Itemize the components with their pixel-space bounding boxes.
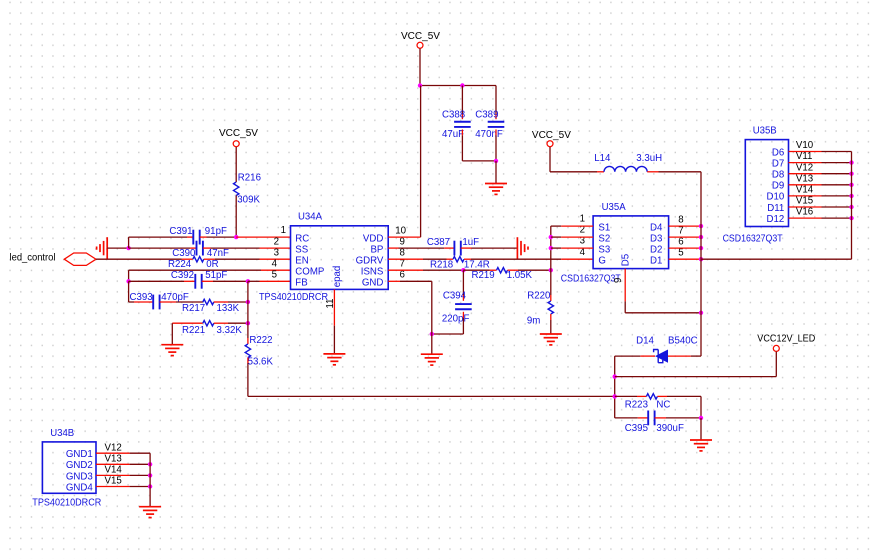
junction FB-left [126, 279, 130, 283]
wire C392 to FB junction [213, 280, 248, 282]
capacitor C392 [171, 270, 228, 289]
ground (epad) [323, 354, 345, 365]
svg-text:C393: C393 [130, 292, 153, 303]
wire GND pin to ground [400, 281, 432, 354]
resistor R219 [472, 268, 533, 282]
wire R222 down [247, 358, 249, 397]
svg-text:6: 6 [678, 236, 683, 247]
svg-text:GND3: GND3 [66, 471, 93, 482]
wire R223 right [667, 396, 701, 418]
svg-text:R221: R221 [182, 325, 205, 336]
wire S3 stub [551, 247, 593, 249]
pin 2 stub SS [260, 247, 291, 249]
svg-text:1: 1 [580, 214, 585, 225]
wire C391 to junction [207, 236, 237, 238]
capacitor C388 [442, 109, 471, 140]
junction R217/rail [246, 300, 250, 304]
svg-text:D5: D5 [621, 254, 632, 266]
op-amp U34B box [42, 442, 96, 493]
svg-text:L14: L14 [594, 153, 611, 164]
wire R221 to rail [228, 322, 248, 324]
svg-text:10: 10 [395, 226, 406, 237]
wire up to RC row [128, 237, 130, 248]
pin stubs D4-D1 [669, 225, 701, 227]
transistor U35B box [745, 140, 788, 227]
resistor R224 [168, 257, 219, 271]
wire drain rail [700, 172, 702, 356]
svg-text:C392: C392 [171, 270, 194, 281]
svg-text:V12: V12 [796, 162, 813, 173]
wire diode anode side [615, 355, 655, 357]
svg-text:C395: C395 [625, 423, 648, 434]
wire R219 to S-rail [518, 269, 551, 271]
svg-text:VCC12V_LED: VCC12V_LED [757, 333, 815, 344]
svg-text:led_control: led_control [10, 253, 56, 264]
U34B pin stubs [96, 452, 130, 454]
capacitor C393 [130, 292, 189, 310]
svg-text:GDRV: GDRV [356, 255, 384, 266]
svg-text:3: 3 [274, 248, 279, 259]
svg-text:D11: D11 [767, 203, 784, 214]
op-amp U34A box [291, 226, 389, 290]
wire C388 bottom lead [461, 130, 463, 161]
junction S3 [549, 246, 553, 250]
wire RC row left [129, 236, 187, 238]
wire R216 to RC row [235, 196, 237, 238]
wire VDD to VCC rail [420, 86, 422, 238]
svg-text:D14: D14 [636, 336, 654, 347]
svg-text:TPS40210DRCR: TPS40210DRCR [259, 292, 328, 303]
svg-text:470pF: 470pF [161, 292, 189, 303]
resistor R220 [527, 291, 554, 327]
wire V rail [851, 152, 853, 260]
wire R221 row [172, 322, 203, 324]
capacitor C395 [625, 411, 684, 434]
svg-text:R222: R222 [249, 335, 272, 346]
svg-text:3.3uH: 3.3uH [636, 153, 662, 164]
wire R220 to ground [550, 320, 552, 334]
svg-text:91pF: 91pF [205, 226, 227, 237]
svg-text:S1: S1 [598, 223, 610, 234]
wire C390 to SS pin [211, 247, 260, 249]
svg-text:R219: R219 [472, 270, 495, 281]
junctions drain rail [699, 224, 703, 228]
svg-text:47nF: 47nF [207, 248, 229, 259]
svg-text:D10: D10 [767, 192, 785, 203]
wire VCC12V_LED [615, 352, 777, 377]
junctions U34B rail [148, 462, 152, 466]
junction FB-right [246, 279, 250, 283]
pin 1 stub RC [236, 236, 290, 238]
svg-text:1: 1 [281, 225, 286, 236]
capacitor C391 [169, 226, 227, 244]
svg-text:V10: V10 [796, 140, 814, 151]
svg-text:GND2: GND2 [66, 460, 93, 471]
wire output rail [614, 356, 616, 418]
svg-text:C388: C388 [442, 109, 465, 120]
svg-text:309K: 309K [237, 194, 260, 205]
wire VCC_5V stem down [419, 49, 421, 86]
svg-text:epad: epad [332, 266, 343, 288]
inductor L14 [594, 153, 662, 172]
junction C395/ground [699, 416, 703, 420]
ground (R220) [540, 334, 562, 345]
wire C394 bottom lead [432, 312, 464, 334]
pin D5 stub [625, 269, 701, 313]
wire C393 row corner [129, 301, 134, 303]
wire to R219 [463, 269, 496, 271]
power symbol VCC_5V (L14) [532, 130, 572, 147]
svg-text:9: 9 [400, 237, 405, 248]
svg-text:VCC_5V: VCC_5V [401, 31, 441, 42]
svg-text:R224: R224 [168, 259, 192, 270]
svg-text:V16: V16 [796, 207, 813, 218]
ground (U34B) [139, 507, 161, 518]
resistor R223 [625, 394, 671, 411]
svg-text:17.4R: 17.4R [464, 260, 490, 271]
wire S-rail [550, 226, 552, 295]
svg-text:CSD16327Q3T: CSD16327Q3T [723, 233, 783, 244]
svg-text:D12: D12 [767, 214, 785, 225]
svg-text:D6: D6 [772, 147, 784, 158]
wire feedback bottom rail [248, 395, 615, 397]
pin 8 stub GDRV [388, 258, 423, 260]
junction at C388 column [460, 83, 464, 87]
svg-text:47uF: 47uF [442, 129, 464, 140]
junction R223 row [613, 394, 617, 398]
power symbol VCC_5V (top) [401, 31, 441, 48]
svg-text:C391: C391 [169, 226, 192, 237]
svg-text:VCC_5V: VCC_5V [532, 130, 572, 141]
junction S2 [549, 235, 553, 239]
wire C389 top lead [495, 86, 497, 120]
pin stub G (U35A pin 4) [561, 258, 593, 260]
svg-text:R216: R216 [238, 173, 261, 184]
junction C394/GND rail [430, 332, 434, 336]
wire to output ground [700, 418, 702, 440]
svg-text:R223: R223 [625, 399, 648, 410]
svg-text:NC: NC [656, 399, 670, 410]
svg-text:D8: D8 [772, 170, 784, 181]
pin 7 stub ISNS [388, 269, 423, 271]
svg-text:GND1: GND1 [66, 449, 93, 460]
svg-text:G: G [598, 256, 606, 267]
capacitor C387 [427, 237, 479, 255]
svg-text:V14: V14 [796, 185, 814, 196]
svg-text:FB: FB [295, 278, 307, 289]
svg-text:RC: RC [295, 233, 309, 244]
wire C395 right [655, 417, 701, 419]
capacitor C394 [442, 290, 472, 324]
wire R224 to EN pin [215, 258, 260, 260]
svg-text:V14: V14 [105, 465, 123, 476]
wire led_control [96, 258, 182, 260]
svg-text:S3: S3 [598, 245, 610, 256]
wire to ground [495, 161, 497, 184]
svg-text:U34A: U34A [298, 212, 323, 223]
wire C393 to R217 [176, 301, 203, 303]
power symbol VCC12V_LED [757, 333, 815, 351]
svg-text:C394: C394 [443, 290, 467, 301]
svg-text:9m: 9m [527, 316, 540, 327]
wire gnd stem [107, 247, 128, 249]
svg-text:V11: V11 [796, 151, 813, 162]
wire C394 top lead [462, 270, 464, 301]
resistor R218 [430, 257, 490, 271]
svg-text:7: 7 [400, 259, 405, 270]
svg-text:U35B: U35B [753, 126, 777, 137]
wire C388 top lead [461, 86, 463, 120]
transistor U35A box [593, 216, 669, 269]
ground (rotated, led_control area) [97, 237, 108, 259]
wire left rail down [128, 281, 130, 302]
wire ISNS to junction [423, 269, 463, 271]
resistor R222 [245, 335, 273, 368]
pin 3 stub EN [260, 258, 291, 260]
wire S2 stub [551, 236, 593, 238]
svg-text:8: 8 [400, 248, 405, 259]
power symbol VCC_5V (R216) [219, 128, 259, 147]
wire top rail y85 [420, 85, 496, 87]
svg-text:V13: V13 [796, 173, 813, 184]
svg-text:D4: D4 [650, 223, 663, 234]
wire BP to C387 [399, 247, 445, 249]
svg-text:5: 5 [678, 247, 683, 258]
svg-text:B540C: B540C [668, 336, 698, 347]
ground (rotated, C387) [517, 237, 528, 259]
pin 11 epad stub [333, 289, 335, 354]
svg-text:V15: V15 [105, 476, 122, 487]
wire R217 to rail [228, 301, 248, 303]
wire C389 bottom lead [495, 130, 497, 161]
pin 4 stub COMP [261, 269, 291, 271]
svg-text:0R: 0R [206, 259, 218, 270]
wire drain to U35B rail [701, 258, 852, 260]
pin 5 stub FB [260, 280, 291, 282]
wire R223 left lead [615, 395, 647, 397]
svg-text:R218: R218 [430, 260, 453, 271]
junction R216/RC [234, 235, 238, 239]
ground (C388/C389) [485, 184, 507, 195]
svg-text:D1: D1 [650, 256, 662, 267]
wire bottom rail y161 [462, 160, 496, 162]
svg-text:6: 6 [400, 270, 405, 281]
svg-text:TPS40210DRCR: TPS40210DRCR [32, 497, 101, 508]
port led_control [10, 253, 97, 266]
ground (R221) [161, 345, 183, 356]
svg-text:1uF: 1uF [462, 237, 479, 248]
junction D5/drain rail [699, 311, 703, 315]
ground (C395) [690, 440, 712, 451]
junction R221/rail [246, 321, 250, 325]
wire FB rail down [247, 281, 249, 344]
svg-text:R220: R220 [527, 291, 551, 302]
wire SS row left [129, 247, 190, 249]
wire FB row left [129, 280, 184, 282]
svg-text:53.6K: 53.6K [248, 357, 274, 368]
svg-text:220pF: 220pF [442, 313, 470, 324]
svg-text:BP: BP [370, 244, 383, 255]
wire C387 to ground [472, 247, 518, 249]
wire VCC to R216 [235, 147, 237, 182]
capacitor C389 [475, 109, 504, 140]
wire S1 corner [551, 225, 593, 227]
svg-text:2: 2 [274, 237, 279, 248]
svg-text:S2: S2 [598, 234, 610, 245]
svg-text:EN: EN [295, 255, 308, 266]
capacitor C390 [172, 241, 229, 259]
wire GDRV to R218 [423, 258, 447, 260]
svg-text:COMP: COMP [295, 266, 324, 277]
svg-text:V12: V12 [105, 442, 122, 453]
svg-text:390uF: 390uF [656, 423, 684, 434]
pin 9 stub BP [388, 247, 398, 249]
svg-text:V15: V15 [796, 196, 813, 207]
svg-text:5: 5 [272, 270, 277, 281]
svg-text:U34B: U34B [50, 428, 74, 439]
diode D14 [636, 336, 698, 363]
resistor R216 [234, 173, 261, 206]
resistor R217 [182, 299, 240, 314]
junctions V rail [849, 160, 853, 164]
wire R218 to U35A gate [471, 258, 561, 260]
junction R219/S-rail [549, 268, 553, 272]
wire VCC to L14 [550, 147, 604, 172]
ground (U34A GND/C394) [421, 354, 443, 365]
pin 6 stub GND [388, 280, 400, 282]
wire C395 left lead [615, 417, 649, 419]
svg-text:9: 9 [613, 278, 624, 283]
wire U34B rail [149, 453, 151, 507]
svg-text:VDD: VDD [363, 233, 383, 244]
svg-text:C390: C390 [172, 248, 196, 259]
wire L14 to drain rail [647, 171, 701, 173]
svg-text:VCC_5V: VCC_5V [219, 128, 259, 139]
svg-text:U35A: U35A [602, 202, 627, 213]
U35B pin stubs [789, 151, 822, 153]
svg-text:D3: D3 [650, 234, 662, 245]
resistor R221 [182, 321, 242, 336]
wire R221 to ground [171, 323, 173, 345]
svg-text:V13: V13 [105, 453, 122, 464]
svg-text:3.32K: 3.32K [217, 325, 243, 336]
wire drain to diode [668, 355, 701, 357]
svg-text:ISNS: ISNS [361, 266, 384, 277]
svg-text:51pF: 51pF [205, 270, 227, 281]
svg-text:C389: C389 [475, 109, 498, 120]
svg-text:133K: 133K [217, 303, 240, 314]
junction VCC12V row [613, 374, 617, 378]
svg-text:GND4: GND4 [66, 482, 94, 493]
svg-text:D2: D2 [650, 245, 662, 256]
svg-text:SS: SS [295, 244, 308, 255]
junction at C389 bottom [494, 159, 498, 163]
svg-text:7: 7 [678, 225, 683, 236]
svg-text:GND: GND [362, 278, 384, 289]
junction C394 top [461, 268, 465, 272]
svg-text:CSD16327Q3T: CSD16327Q3T [561, 273, 621, 284]
wire COMP row [129, 270, 261, 281]
svg-text:8: 8 [678, 214, 683, 225]
pin 10 stub VDD [388, 236, 420, 238]
svg-text:1.05K: 1.05K [507, 270, 533, 281]
svg-text:R217: R217 [182, 303, 205, 314]
junction at VCC column [418, 83, 422, 87]
svg-text:D9: D9 [772, 181, 784, 192]
svg-text:470nF: 470nF [475, 129, 503, 140]
svg-text:D7: D7 [772, 158, 784, 169]
wire FB to pin [248, 280, 260, 282]
junction gnd node [126, 246, 130, 250]
svg-text:4: 4 [272, 259, 278, 270]
svg-text:C387: C387 [427, 237, 450, 248]
